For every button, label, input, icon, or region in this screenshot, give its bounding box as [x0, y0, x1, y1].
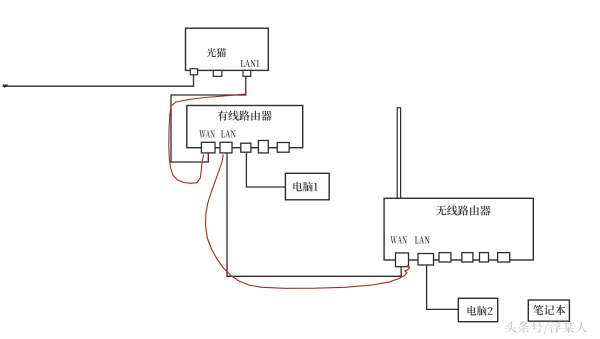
wire wireless router LAN1 to PC2 — [427, 265, 459, 309]
wire wired router LAN2 to PC1 — [246, 152, 285, 187]
red wire modem LAN1 to wired router WAN (hand-drawn) — [169, 81, 246, 184]
wired router port LAN2 — [241, 143, 251, 152]
label 无线路由器 — [436, 205, 490, 215]
label 电脑1 — [293, 182, 317, 192]
wired router port LAN4 — [277, 143, 289, 153]
modem port 1 — [190, 69, 197, 75]
modem box 光猫 — [186, 28, 269, 70]
wire fiber to wall — [3, 75, 194, 86]
wireless router port WAN — [396, 253, 409, 267]
wireless router port LAN1 — [418, 254, 434, 266]
laptop box 笔记本 — [528, 300, 569, 321]
wire wired router LAN1 to wireless router WAN (black) — [227, 153, 401, 276]
modem port 2 — [213, 70, 222, 76]
watermark 头条号/浮某人 — [505, 321, 587, 334]
label LAN (wireless) — [415, 236, 430, 243]
label WAN (wireless) — [390, 236, 407, 243]
wired router box 有线路由器 — [187, 106, 303, 148]
wireless router box 无线路由器 — [384, 198, 533, 260]
wired router port LAN3 — [258, 141, 268, 153]
wireless router port LAN2 — [439, 253, 451, 262]
antenna — [397, 108, 400, 199]
label 有线路由器 — [217, 110, 271, 120]
PC2 box 电脑2 — [458, 298, 497, 321]
wired router port LAN1 — [220, 142, 232, 153]
label LAN1 — [241, 60, 260, 67]
wire modem LAN1 to wired router WAN (black) — [171, 76, 246, 162]
PC1 box 电脑1 — [285, 173, 329, 200]
wired router port WAN — [201, 142, 215, 153]
wireless router port LAN4 — [480, 253, 489, 262]
label WAN (wired) — [199, 130, 215, 137]
wireless router port LAN5 — [498, 253, 510, 262]
label 笔记本 — [533, 305, 565, 315]
label 电脑2 — [468, 306, 493, 316]
modem port LAN1 — [243, 70, 251, 76]
label LAN (wired) — [221, 130, 236, 137]
label 光猫 — [207, 48, 227, 57]
red wire wired router LAN1 to wireless router WAN (hand-drawn) — [206, 155, 410, 289]
wireless router port LAN3 — [462, 253, 473, 262]
